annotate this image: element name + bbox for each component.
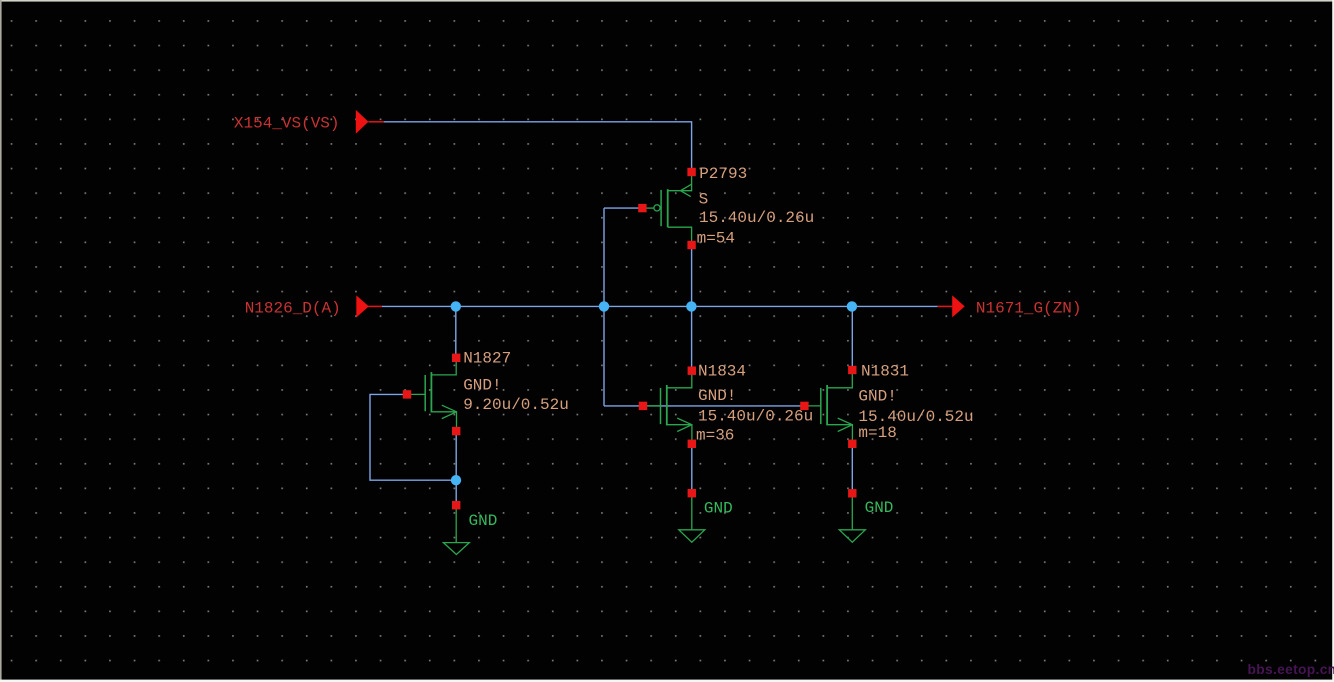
wire PMOS gate stub [604, 207, 642, 209]
port stub X154_VS [368, 121, 383, 123]
N1834 source arrow [677, 418, 692, 431]
window border top [0, 0, 1334, 2]
wire N1834 source to gnd [691, 444, 693, 493]
wire N1827 source to gnd [455, 431, 457, 505]
N1834 source lead [667, 425, 692, 444]
N1831 gate bar [820, 388, 822, 424]
N1831 channel bar [826, 385, 828, 425]
wire vertical gate riser at x=604 [603, 208, 605, 406]
pin squares N1827 [403, 354, 461, 510]
N1834 drain lead [667, 371, 692, 388]
P2793 gate bubble [654, 205, 660, 211]
svg-text:N1831: N1831 [861, 362, 909, 380]
P2793 drain lead [668, 227, 692, 245]
input port arrow X154_VS [356, 110, 369, 134]
window border bottom [0, 680, 1334, 682]
label N1831 [858, 362, 973, 442]
output port arrow N1671_G [952, 295, 965, 317]
svg-text:N1834: N1834 [698, 362, 746, 380]
N1831 gate lead [804, 405, 820, 407]
transistor N1831 [804, 370, 852, 444]
wire N1827 drain [455, 306, 457, 357]
window border left [0, 0, 2, 682]
svg-text:m=18: m=18 [858, 424, 896, 442]
node A at PMOS column [686, 301, 696, 311]
svg-text:P2793: P2793 [699, 165, 747, 183]
op PMOS transistor P2793 [642, 172, 691, 245]
node A at gate riser [599, 301, 609, 311]
N1834 gate bar [660, 388, 662, 424]
transistor N1834 [643, 371, 692, 444]
input port arrow N1826_D [356, 295, 369, 317]
N1831 source arrow [838, 418, 853, 431]
transistor N1827 [407, 358, 457, 431]
port stub N1826_D [368, 305, 382, 307]
svg-text:m=36: m=36 [696, 427, 734, 445]
svg-text:15.40u/0.26u: 15.40u/0.26u [699, 209, 814, 227]
node N1827 feedback junction [451, 475, 461, 485]
N1834 channel bar [666, 385, 668, 425]
svg-text:GND!: GND! [698, 387, 736, 405]
pin squares N1831 [800, 366, 856, 498]
svg-text:m=54: m=54 [697, 229, 735, 247]
port stub N1671_G [938, 305, 953, 307]
P2793 gate bar [660, 190, 662, 226]
P2793 gate lead [642, 207, 654, 209]
wire N1827 gate feedback loop [370, 394, 456, 480]
svg-text:GND: GND [865, 499, 894, 517]
label N1827 [463, 349, 569, 414]
node A at N1827 column [451, 301, 461, 311]
N1827 gate lead [407, 393, 425, 395]
svg-text:GND: GND [469, 512, 498, 530]
ground symbol under N1834 [679, 493, 705, 542]
svg-text:N1671_G(ZN): N1671_G(ZN) [976, 300, 1082, 318]
svg-text:N1826_D(A): N1826_D(A) [245, 300, 341, 318]
node A at N1831 column [847, 301, 857, 311]
ground symbol under N1831 [839, 493, 865, 542]
wire VS: input port to PMOS source [384, 122, 692, 172]
svg-text:9.20u/0.52u: 9.20u/0.52u [463, 396, 569, 414]
wire PMOS drain to N1834 drain [691, 245, 693, 371]
svg-text:GND: GND [704, 500, 733, 518]
pin squares N1834 [639, 367, 696, 498]
wire N1831 source to gnd [851, 444, 853, 494]
N1827 channel bar [430, 372, 432, 412]
label N1834 [696, 362, 813, 444]
label P2793 [697, 165, 815, 247]
svg-text:GND!: GND! [463, 377, 501, 395]
N1827 gate bar [424, 375, 426, 411]
svg-text:N1827: N1827 [463, 349, 511, 367]
wire N1831 drain [851, 306, 853, 370]
N1831 source lead [827, 425, 852, 444]
N1831 drain lead [827, 370, 852, 388]
N1827 drain lead [431, 358, 456, 375]
svg-text:15.40u/0.26u: 15.40u/0.26u [698, 408, 813, 426]
window border right [1332, 0, 1334, 682]
pin squares P2793 [638, 168, 696, 249]
N1827 source lead [431, 412, 456, 431]
svg-text:bbs.eetop.cn: bbs.eetop.cn [1248, 662, 1334, 677]
N1834 gate lead [643, 405, 661, 407]
wire net A main horizontal [382, 305, 938, 307]
ground symbol under N1827 [443, 505, 469, 554]
P2793 source arrow [681, 184, 692, 196]
junction node dots on net A [451, 301, 858, 485]
N1827 source arrow [442, 405, 457, 418]
P2793 channel bar [667, 189, 669, 227]
P2793 source lead [668, 172, 692, 191]
svg-text:S: S [699, 191, 709, 209]
svg-text:X154_VS(VS): X154_VS(VS) [234, 115, 340, 133]
wire NMOS gate row [604, 405, 804, 407]
svg-text:GND!: GND! [858, 387, 896, 405]
